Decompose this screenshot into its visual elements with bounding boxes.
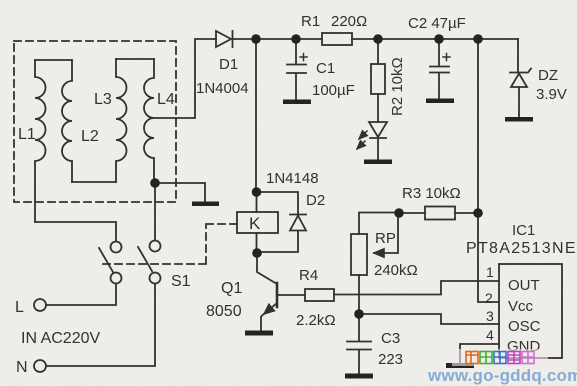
diode D2 1N4148: [290, 214, 306, 216]
wire R3 right to Vcc rail: [455, 212, 478, 214]
diode D1 1N4004: [216, 31, 231, 47]
wire node to D2 cathode: [257, 192, 298, 214]
wire rail down to DZ: [517, 39, 519, 72]
wire C3 to ground: [358, 350, 360, 374]
inductor L3: [116, 59, 127, 182]
wire R3 node to RP top: [359, 213, 399, 235]
inductor L2: [62, 60, 72, 182]
wire R4 to IC pin 1: [334, 281, 499, 295]
wire L2 bottom to L3 bottom: [72, 181, 116, 183]
wire IC pin 4 to ground: [460, 344, 499, 363]
inductor L4: [144, 59, 154, 183]
wire main +V rail: [352, 38, 518, 40]
transistor Q1 8050: [257, 253, 277, 284]
ground (DZ): [505, 117, 533, 122]
wire LED to ground: [377, 138, 379, 160]
IC1 PT8A2513NE box: [499, 264, 562, 358]
node rail-Vcc: [473, 34, 483, 44]
zener DZ: [510, 69, 531, 73]
wire OSC node to C3: [358, 314, 360, 341]
wire Vcc vertical rail to R3 node and pin2: [478, 39, 499, 302]
wire rail to C1: [295, 39, 297, 64]
wire rail to R2: [377, 39, 379, 64]
wire L1 bottom to switch pole 1: [35, 222, 116, 241]
node collector / D2 anode: [252, 248, 262, 258]
wire RP bottom to OSC node: [358, 275, 360, 314]
transformer dashed enclosure: [14, 41, 176, 202]
ground (transformer common): [192, 202, 219, 207]
node R3 left / RP: [394, 208, 404, 218]
wire D2 anode to collector node: [258, 231, 298, 252]
ground (C1): [283, 100, 311, 105]
wire N to switch: [46, 284, 155, 367]
LED: [369, 122, 387, 137]
node relay top / D2: [252, 187, 262, 197]
ground (IC pin 4): [446, 363, 474, 368]
wire node to relay coil: [256, 192, 258, 212]
node R3 right / Vcc: [473, 208, 483, 218]
node L4 bottom: [150, 178, 160, 188]
wire D1 cathode to R1: [233, 38, 322, 40]
capacitor C3 223: [347, 341, 371, 343]
switch S1 pole 1: [111, 242, 122, 253]
wire DZ to ground: [518, 87, 520, 117]
node rail-R2: [373, 34, 383, 44]
resistor R1: [322, 33, 352, 45]
node rail-C2: [434, 34, 444, 44]
resistor R3: [425, 207, 455, 220]
wire rail down to relay node: [255, 39, 257, 192]
wire L4 node down to switch pole 2: [154, 183, 156, 240]
inductor L1: [35, 60, 46, 222]
capacitor C1 100uF: [287, 64, 306, 66]
capacitor C2 47uF: [430, 66, 449, 68]
watermark site logo: [452, 349, 548, 366]
wire L4 tap to D1 anode: [154, 39, 216, 118]
terminal L: [34, 299, 46, 311]
mechanical link S1 to relay K: [103, 224, 237, 264]
ground (LED): [364, 160, 392, 165]
wire L to switch: [46, 284, 116, 306]
wire L1-L2 top bar: [35, 59, 72, 61]
ground (C3): [345, 374, 373, 379]
relay K coil: [237, 212, 278, 233]
switch S1 pole 2: [150, 241, 161, 252]
ground (Q1 emitter): [245, 331, 273, 336]
potentiometer RP: [351, 234, 367, 275]
wire C1 to ground: [295, 74, 297, 101]
ground (C2): [426, 99, 454, 104]
wire L3-L4 top bar: [116, 58, 154, 60]
resistor R4: [305, 289, 334, 301]
wire L4 bottom to ground: [155, 183, 205, 202]
terminal N: [34, 360, 46, 372]
resistor R2: [371, 64, 385, 94]
wire R2 to LED: [377, 94, 379, 122]
wire rail to C2: [438, 39, 440, 66]
wire C2 to ground: [438, 73, 440, 99]
node OSC / C3: [354, 309, 364, 319]
wire RP wiper: [374, 213, 398, 254]
wire relay coil to collector node: [256, 233, 258, 253]
node rail-C1: [291, 34, 301, 44]
wire R3 left node: [399, 212, 425, 214]
wire OSC node to IC pin 3: [359, 314, 499, 324]
node rail-relay: [251, 34, 261, 44]
